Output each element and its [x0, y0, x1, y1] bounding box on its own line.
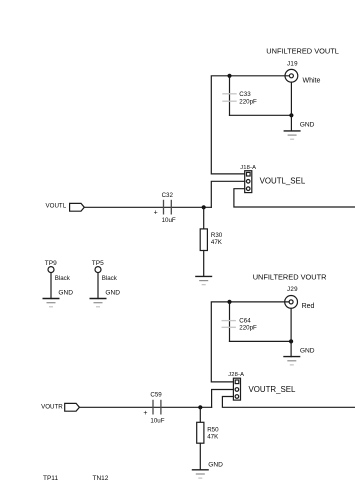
svg-text:GND: GND	[300, 348, 315, 355]
svg-text:220pF: 220pF	[239, 98, 257, 105]
wire J28 pin3 to right edge	[222, 397, 355, 408]
junction at R30 top	[202, 205, 206, 209]
svg-text:VOUTL_SEL: VOUTL_SEL	[260, 177, 306, 186]
node VOUTR flag	[41, 403, 79, 411]
svg-text:Black: Black	[55, 275, 71, 282]
node VOUTL flag	[46, 202, 85, 211]
ground under R50	[192, 461, 223, 478]
svg-text:GND: GND	[208, 461, 223, 468]
connector J19 (White jack)	[285, 60, 321, 84]
svg-text:C33: C33	[239, 91, 251, 98]
wire J18 pin3 to right edge	[234, 189, 355, 207]
svg-text:47K: 47K	[211, 239, 223, 246]
svg-text:VOUTR: VOUTR	[41, 403, 63, 410]
capacitor C32 10uF	[154, 192, 176, 224]
svg-text:+: +	[143, 410, 147, 417]
wire J29 drop to ground	[290, 308, 292, 356]
svg-text:GND: GND	[58, 290, 73, 297]
svg-text:R50: R50	[207, 427, 219, 434]
wire C64 bottom to J29 drop	[230, 340, 292, 342]
svg-text:VOUTL: VOUTL	[46, 202, 67, 209]
junction at J29 drop	[289, 339, 293, 343]
connector J28-A header	[228, 372, 244, 400]
svg-text:J28-A: J28-A	[228, 372, 244, 378]
svg-text:47K: 47K	[207, 434, 219, 441]
capacitor C64 220pF	[222, 317, 258, 331]
node UNFILTERED VOUTL	[266, 46, 339, 55]
svg-text:J19: J19	[287, 60, 298, 67]
svg-text:C59: C59	[150, 391, 162, 398]
svg-text:10uF: 10uF	[162, 217, 176, 224]
svg-text:GND: GND	[105, 290, 120, 297]
test point TP5	[90, 260, 121, 307]
resistor R30 47K	[200, 229, 223, 251]
wire R50 top stem	[199, 407, 201, 422]
wire R30 bottom stem	[203, 251, 205, 277]
ground under J19	[284, 122, 315, 140]
node UNFILTERED VOUTR	[253, 272, 327, 281]
junction at C33 top	[227, 74, 231, 78]
wire top rail to pin1 of J18	[211, 76, 289, 174]
wire R30 top stem	[203, 207, 205, 229]
svg-text:J18-A: J18-A	[240, 165, 256, 171]
resistor R50 47K	[197, 422, 219, 443]
svg-text:C32: C32	[162, 192, 174, 199]
node VOUTR_SEL	[249, 385, 297, 394]
connector J29 (Red jack)	[285, 286, 315, 310]
wire R50 bottom stem	[199, 443, 201, 470]
svg-text:GND: GND	[300, 122, 315, 129]
test point TN12 (cut off at bottom)	[93, 475, 109, 481]
wire C33 stem	[229, 76, 231, 116]
junction at R50 top	[198, 405, 202, 409]
wire J18 pin2 to VOUTL line	[211, 181, 244, 207]
test point TP11 (cut off at bottom)	[43, 475, 58, 481]
wire C33 bottom to J19 drop	[230, 114, 292, 116]
svg-text:Red: Red	[302, 303, 315, 310]
capacitor C33 220pF	[222, 91, 257, 105]
svg-text:R30: R30	[211, 232, 223, 239]
svg-text:220pF: 220pF	[239, 325, 257, 332]
svg-text:White: White	[303, 77, 321, 84]
wire top rail to pin1 of J28	[211, 302, 289, 382]
wire C64 stem	[229, 302, 231, 342]
wire J28 pin2 to VOUTR line	[212, 390, 234, 408]
svg-text:TP5: TP5	[92, 260, 104, 267]
capacitor C59 10uF	[143, 391, 164, 424]
svg-text:TP9: TP9	[45, 260, 57, 267]
svg-text:+: +	[154, 209, 158, 216]
ground under J29	[283, 348, 314, 365]
svg-text:J29: J29	[287, 286, 298, 293]
svg-text:VOUTR_SEL: VOUTR_SEL	[249, 385, 297, 394]
svg-text:C64: C64	[239, 317, 251, 324]
junction at J19 drop	[289, 113, 293, 117]
svg-text:Black: Black	[102, 275, 118, 282]
node VOUTL_SEL	[260, 177, 306, 186]
wire VOUTR line	[79, 406, 211, 408]
test point TP9	[43, 260, 74, 307]
wire J19 drop to ground	[290, 82, 292, 131]
svg-text:UNFILTERED VOUTR: UNFILTERED VOUTR	[253, 272, 327, 281]
svg-text:UNFILTERED VOUTL: UNFILTERED VOUTL	[266, 46, 339, 55]
wire VOUTL line	[84, 206, 211, 208]
svg-text:TN12: TN12	[93, 475, 109, 481]
svg-text:10uF: 10uF	[150, 418, 164, 425]
connector J18-A header	[240, 165, 256, 193]
junction at C64 top	[227, 300, 231, 304]
svg-text:TP11: TP11	[43, 475, 58, 481]
ground under R30	[195, 276, 212, 284]
